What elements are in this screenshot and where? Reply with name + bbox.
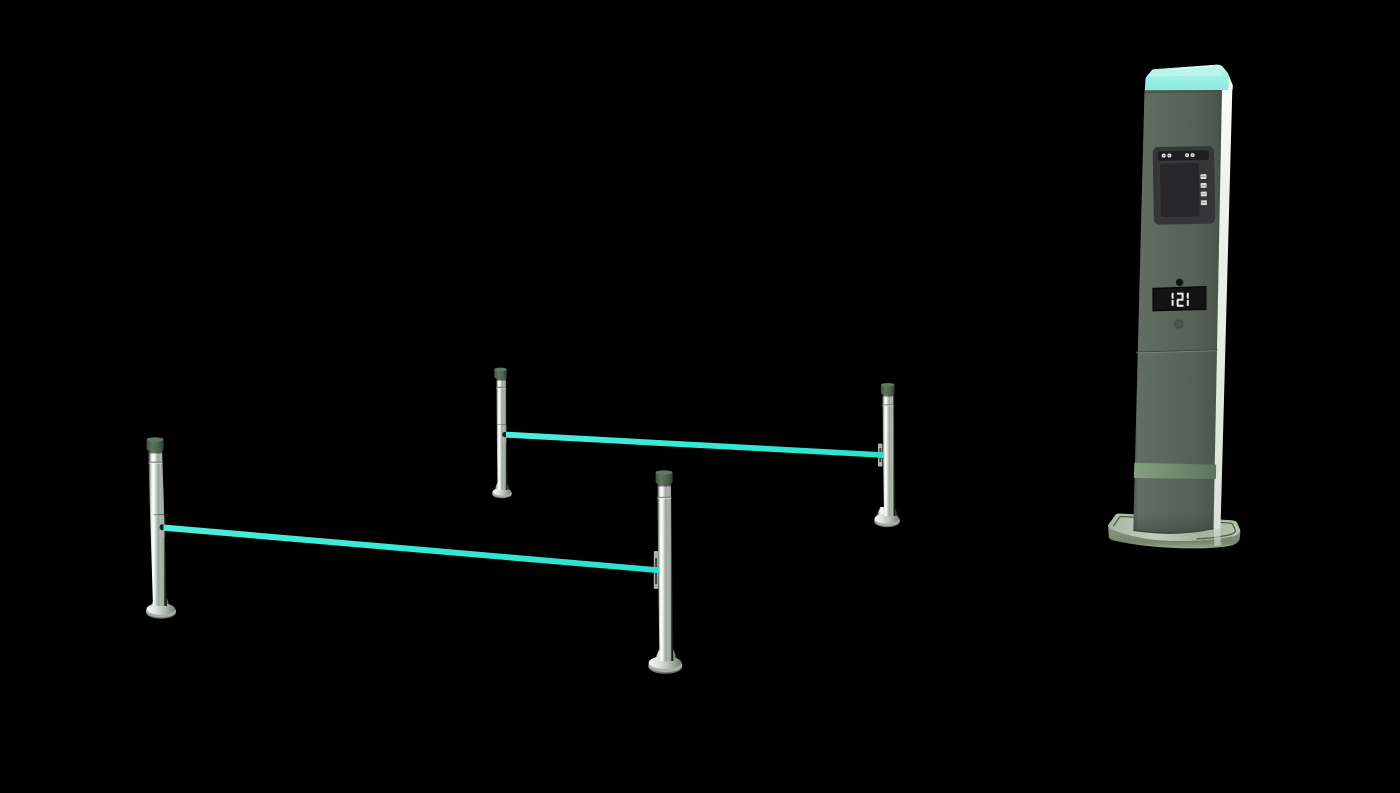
post 4 base disc	[876, 507, 899, 516]
post 1 emitter	[154, 514, 167, 516]
post 4 (right)	[874, 383, 900, 527]
kiosk cap	[1145, 65, 1229, 91]
kiosk bottom AO	[1133, 513, 1214, 534]
kiosk body top shadow under cap	[1144, 88, 1222, 93]
kiosk panel screen	[1159, 162, 1200, 217]
beam lower (post1 to post3)	[164, 525, 660, 574]
post 1 under-cap shadow	[148, 450, 162, 453]
post 2 emitter	[497, 423, 507, 425]
kiosk plate reflection streak	[1214, 529, 1221, 546]
post 3 cap	[656, 471, 673, 484]
post 2 cap	[494, 368, 507, 378]
kiosk right edge highlight	[1214, 86, 1233, 529]
kiosk display digits 121	[1172, 293, 1189, 307]
kiosk body	[1133, 88, 1222, 534]
kiosk tower	[1108, 65, 1240, 549]
post 1 seam	[149, 461, 163, 463]
post 4 under-cap shadow	[882, 394, 894, 397]
post 2 (upper middle-left)	[492, 368, 512, 499]
post 3 seam	[657, 496, 671, 498]
post 4 receiver slot	[878, 444, 882, 467]
kiosk camera	[1176, 279, 1183, 286]
post 3 base disc	[654, 650, 679, 661]
post 2 body	[496, 376, 508, 490]
kiosk counter display	[1153, 287, 1206, 311]
kiosk base plate top	[1108, 513, 1240, 541]
post 3 (lower middle)	[648, 470, 682, 673]
post 4 seam	[882, 404, 894, 406]
beam upper (post2 to post4)	[506, 432, 884, 458]
post 3 receiver slot	[654, 551, 658, 589]
kiosk speaker circle	[1175, 320, 1183, 328]
kiosk cap right highlight	[1228, 75, 1233, 90]
kiosk panel	[1153, 146, 1216, 225]
post 4 cap	[881, 384, 895, 395]
post 1 base disc	[151, 598, 171, 606]
post 4 body	[882, 392, 896, 517]
post 2 base disc	[495, 483, 510, 490]
post 2 seam	[496, 386, 506, 388]
kiosk base plate groove right	[1197, 522, 1235, 539]
post 1 (far left)	[146, 437, 176, 618]
kiosk band	[1134, 463, 1216, 479]
kiosk bottom contact shadow	[1133, 529, 1214, 534]
kiosk panel top strip	[1158, 150, 1209, 160]
kiosk panel buttons	[1200, 174, 1207, 205]
kiosk base plate side	[1108, 527, 1240, 549]
kiosk cap top rim light	[1172, 66, 1214, 69]
post 3 under-cap shadow	[657, 483, 671, 486]
post 2 under-cap shadow	[496, 378, 506, 381]
kiosk base plate groove left	[1113, 516, 1133, 526]
kiosk cap top face	[1148, 65, 1223, 77]
kiosk panel LEDs	[1162, 153, 1195, 158]
post 3 body	[657, 481, 674, 661]
post 1 cap	[147, 438, 164, 451]
post 1 body	[148, 447, 167, 606]
kiosk seam line	[1136, 350, 1217, 352]
